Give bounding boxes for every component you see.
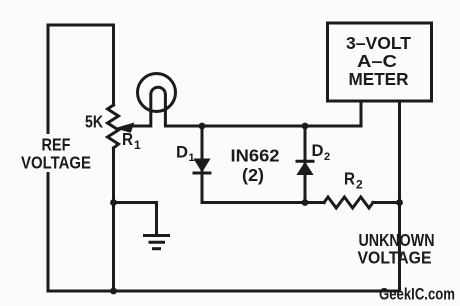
label IN662 (2) xyxy=(231,146,280,186)
node: junction R2 right xyxy=(396,199,403,206)
node: junction D2 bottom xyxy=(302,199,309,206)
watermark GeekIC.com xyxy=(379,285,455,304)
wire: R2 to right vertical xyxy=(373,201,400,204)
node: junction D1 top xyxy=(199,123,206,130)
svg-text:D: D xyxy=(312,141,324,160)
wire: top horizontal xyxy=(48,24,114,27)
svg-text:GeekIC.com: GeekIC.com xyxy=(379,285,455,304)
label D1 xyxy=(176,143,195,165)
meter box U1 xyxy=(328,23,432,101)
label REF VOLTAGE (with white backing over wire) xyxy=(19,134,94,173)
label 3-VOLT A-C METER xyxy=(346,33,411,89)
svg-text:(2): (2) xyxy=(242,165,264,185)
svg-text:A–C: A–C xyxy=(357,51,397,71)
wire: meter left terminal xyxy=(360,101,363,126)
wiper arrow of R1 xyxy=(117,123,141,132)
svg-text:IN662: IN662 xyxy=(231,146,280,166)
svg-text:5K: 5K xyxy=(85,112,103,132)
svg-text:1: 1 xyxy=(134,138,141,152)
label R2 xyxy=(344,169,363,192)
wire: horizontal from wiper to lamp xyxy=(134,125,150,128)
svg-text:METER: METER xyxy=(349,69,409,89)
wire: middle vertical above R1 xyxy=(112,25,115,105)
svg-text:VOLTAGE: VOLTAGE xyxy=(358,248,432,268)
label 5K xyxy=(85,112,103,132)
wire: bottom horizontal xyxy=(48,290,400,293)
svg-text:D: D xyxy=(176,143,188,162)
resistor R1 (5K potentiometer zigzag) xyxy=(108,105,119,148)
label R1 xyxy=(122,129,141,152)
svg-text:R: R xyxy=(122,129,133,149)
wire: horizontal from lamp to meter branch xyxy=(166,125,361,128)
wire: middle vertical below R1 xyxy=(112,148,115,291)
wire: ground branch xyxy=(114,203,157,235)
diode D2 (cathode up) xyxy=(297,126,313,203)
diode D1 (cathode down) xyxy=(194,126,210,203)
wire: bottom rail from D1 to R2 xyxy=(202,201,324,204)
svg-text:2: 2 xyxy=(324,151,330,163)
ground symbol xyxy=(145,236,169,249)
wire: meter right terminal / right vertical xyxy=(398,101,401,291)
node: junction ground branch xyxy=(110,199,117,206)
svg-text:1: 1 xyxy=(189,152,195,164)
label D2 xyxy=(312,141,331,163)
svg-text:3–VOLT: 3–VOLT xyxy=(346,33,411,53)
node: junction D2 top xyxy=(302,123,309,130)
label UNKNOWN VOLTAGE xyxy=(358,230,435,268)
wire: left vertical of source loop xyxy=(47,25,50,291)
svg-text:2: 2 xyxy=(356,178,363,192)
svg-text:REF: REF xyxy=(42,135,71,155)
svg-text:VOLTAGE: VOLTAGE xyxy=(21,153,91,173)
resistor R2 zigzag xyxy=(324,197,373,208)
lamp (pilot light) xyxy=(138,74,176,127)
svg-text:R: R xyxy=(344,169,355,189)
node: junction bottom middle xyxy=(110,288,117,295)
